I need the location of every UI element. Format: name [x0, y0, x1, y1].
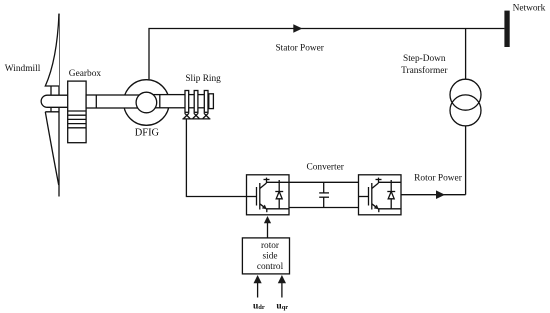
- wire slip ring down: [186, 119, 246, 197]
- Udr arrow: [254, 275, 262, 298]
- svg-text:DFIG: DFIG: [135, 128, 160, 139]
- svg-text:control: control: [257, 262, 284, 272]
- wire DFIG to stator line: [149, 29, 504, 80]
- shaft joint right: [159, 95, 161, 108]
- diode 2: [387, 180, 395, 209]
- windmill lower blade root: [50, 107, 52, 112]
- slip ring 3: [204, 91, 208, 113]
- DFIG outer circle: [124, 80, 170, 126]
- windmill mast: [58, 14, 60, 197]
- shaft gearbox to DFIG: [86, 95, 140, 108]
- svg-text:Transformer: Transformer: [401, 65, 448, 76]
- slip ring 1: [185, 91, 189, 113]
- rotor power arrowhead: [436, 190, 445, 199]
- converter box 2 (grid side): [359, 175, 402, 215]
- svg-text:Converter: Converter: [306, 162, 344, 172]
- hub capsule: [41, 95, 68, 107]
- svg-text:rotor: rotor: [261, 241, 280, 251]
- transformer lower winding: [450, 95, 481, 126]
- DFIG inner circle: [136, 92, 157, 113]
- dc link top wire: [289, 181, 359, 183]
- brush X mark 3: [203, 113, 210, 118]
- svg-text:Step-Down: Step-Down: [403, 54, 446, 64]
- windmill lower blade: [45, 112, 59, 185]
- transformer upper winding: [450, 79, 481, 110]
- gearbox: [68, 81, 86, 143]
- brush bottom bar: [182, 118, 210, 120]
- wire transformer down: [465, 126, 467, 195]
- rotor power wire: [401, 194, 465, 196]
- slip ring 2: [194, 91, 198, 113]
- dc link bottom wire: [289, 207, 359, 209]
- rotor side control box: [242, 238, 289, 274]
- svg-text:side: side: [263, 251, 278, 261]
- dc link capacitor: [319, 182, 329, 207]
- network bus bar: [504, 11, 509, 47]
- brush X mark 1: [184, 113, 191, 118]
- wire stator line down to transformer: [465, 29, 467, 80]
- gearbox gear lines: [68, 111, 86, 128]
- stator power arrowhead: [293, 24, 302, 33]
- svg-text:Windmill: Windmill: [5, 64, 41, 74]
- svg-text:Stator Power: Stator Power: [276, 43, 325, 53]
- shaft end cap: [209, 94, 214, 109]
- IGBT 1: [247, 178, 290, 213]
- svg-text:Network: Network: [513, 3, 546, 13]
- svg-text:Slip Ring: Slip Ring: [185, 74, 221, 84]
- converter box 1 (rotor side): [247, 175, 290, 215]
- svg-text:Gearbox: Gearbox: [69, 69, 102, 79]
- svg-text:Rotor Power: Rotor Power: [414, 173, 463, 183]
- diode 1: [275, 180, 283, 209]
- windmill upper blade root: [50, 86, 52, 95]
- control arrowhead up: [264, 216, 271, 223]
- control arrow stem up: [267, 223, 269, 238]
- shaft joint: [95, 95, 97, 108]
- brush X mark 2: [193, 113, 200, 118]
- IGBT 2: [359, 178, 402, 213]
- Uqr arrow: [278, 275, 286, 298]
- windmill upper blade: [45, 14, 59, 86]
- shaft DFIG to slip ring: [152, 95, 209, 108]
